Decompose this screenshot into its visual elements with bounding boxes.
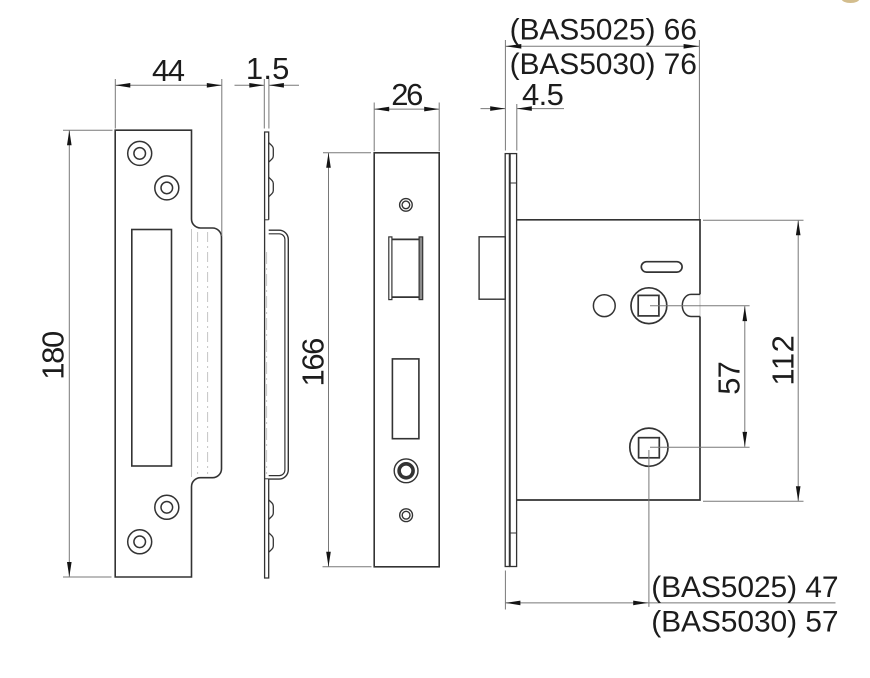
forend screw hole top [400,199,413,212]
latch bolt side [479,237,505,299]
screw hole D [128,530,152,554]
svg-text:26: 26 [391,77,422,112]
dimension 4.5 [481,77,565,151]
forend screw hole bottom [400,509,413,522]
cylinder hole [394,459,418,483]
latch front right strip [419,237,423,300]
keep side boss 3 [269,500,274,520]
inner plate tick bottom [510,532,516,534]
keep centre line 2 [207,232,209,474]
keep side lip inner [269,234,285,476]
keep bend line [191,229,193,477]
forend outer plate side [505,154,509,567]
svg-text:1.5: 1.5 [246,51,290,86]
screw hole A [128,141,152,165]
forend inner plate side [510,154,516,567]
keep side boss 4 [269,533,274,553]
keep side bend ticks [265,220,269,479]
keep side boss 2 [269,177,274,197]
bottom square [639,438,660,458]
keep centre line 1 [197,232,199,474]
dimension 180 [35,130,112,577]
screw hole B [155,176,179,200]
bottom square leader horizontal [650,446,750,448]
dimension 1.5 [235,51,300,129]
bottom square leader vertical [648,450,650,607]
dimension 112 [703,220,804,501]
key notch [682,294,700,316]
keep cutout [132,230,172,467]
dimension 57 vertical [712,306,747,447]
svg-text:166: 166 [296,339,331,387]
svg-text:(BAS5025) 47: (BAS5025) 47 [651,571,838,604]
case hole [593,295,615,317]
svg-text:44: 44 [152,53,185,88]
keep side boss 1 [269,143,274,163]
svg-text:57: 57 [712,362,747,395]
deadbolt front [392,359,419,439]
latch front left strip [389,237,392,300]
dimension 166 [296,153,372,567]
label BAS5030 76 [510,48,697,81]
svg-text:180: 180 [35,331,70,380]
dimension 66 [505,13,699,219]
keep plate outline [115,130,221,577]
keep side centre line [266,252,268,474]
svg-text:(BAS5025) 66: (BAS5025) 66 [510,13,697,46]
follower circle [631,288,667,324]
label BAS5030 57 [651,605,838,638]
screw hole C [155,495,179,519]
latch front bottom edge [392,296,419,298]
follower square [638,295,659,316]
forend plate [374,153,439,567]
inner plate tick top [510,182,516,184]
svg-text:(BAS5030) 57: (BAS5030) 57 [651,605,838,638]
follower leader [650,305,750,307]
svg-text:112: 112 [766,335,801,386]
svg-text:4.5: 4.5 [522,77,563,112]
stray gold dot [842,0,860,3]
case slot [641,262,682,272]
keep side lip outer [269,230,289,479]
dimension 26 [374,77,439,151]
lock case outline [517,220,700,500]
dimension 44 [115,53,222,236]
bottom square circle [630,428,668,466]
latch front top edge [392,238,419,240]
keep side plate [265,132,269,578]
dimension 47 backset [505,571,838,610]
